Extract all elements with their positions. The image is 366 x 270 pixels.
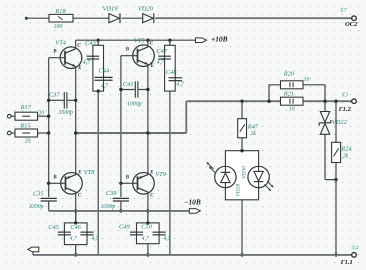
wire bbox=[38, 115, 49, 117]
capacitor C44 bbox=[94, 67, 112, 89]
resistor R21 bbox=[281, 90, 304, 112]
svg-text:E: E bbox=[77, 171, 81, 176]
transistor VT9 bbox=[125, 171, 167, 199]
svg-text:R20: R20 bbox=[283, 70, 295, 77]
node C41 left bbox=[119, 88, 122, 91]
wire emitter column stage2 bbox=[147, 65, 149, 175]
node C50 bus bbox=[146, 253, 149, 256]
capacitor box C45/C46 bbox=[64, 223, 87, 245]
led VD30 bbox=[242, 166, 274, 191]
wire net OC2 to X7 bbox=[155, 17, 351, 19]
svg-text:R47: R47 bbox=[247, 124, 259, 131]
connector pin X4 bbox=[340, 245, 358, 267]
wire VT9 base bbox=[121, 182, 138, 184]
resistor R47 bbox=[238, 101, 259, 138]
svg-text:C49: C49 bbox=[119, 223, 130, 230]
svg-text:VT4: VT4 bbox=[55, 40, 66, 47]
svg-text:C48: C48 bbox=[166, 69, 177, 76]
svg-text:+10В: +10В bbox=[211, 35, 228, 44]
capacitor C41 bbox=[121, 81, 148, 107]
svg-text:4,7: 4,7 bbox=[91, 235, 99, 242]
wire base column stage2 bbox=[120, 56, 122, 184]
node VD22-R24 bbox=[334, 178, 337, 181]
capacitor C48 bbox=[166, 69, 185, 88]
wire VT5 base bbox=[121, 55, 138, 57]
wire emitter column stage1 bbox=[75, 67, 77, 175]
wire R24 node to bus bbox=[335, 180, 337, 255]
svg-text:4,7: 4,7 bbox=[83, 59, 91, 66]
wire box to bus bbox=[241, 200, 243, 255]
svg-text:10: 10 bbox=[289, 106, 295, 112]
wire cap box to bus bbox=[75, 245, 77, 255]
svg-text:C45: C45 bbox=[48, 224, 59, 231]
node C37 right bbox=[74, 99, 77, 102]
node C45 box top bbox=[74, 221, 77, 224]
wire VT8 base bbox=[49, 182, 66, 184]
svg-text:VD28: VD28 bbox=[235, 184, 241, 197]
svg-text:VT8: VT8 bbox=[84, 169, 95, 176]
svg-text:VD20: VD20 bbox=[138, 6, 154, 13]
svg-text:VD19: VD19 bbox=[103, 6, 119, 13]
svg-text:Г1.1: Г1.1 bbox=[340, 259, 353, 266]
node rail-C47 bbox=[168, 39, 171, 42]
svg-text:C44: C44 bbox=[99, 67, 110, 74]
node box top bbox=[240, 149, 243, 152]
capacitor C35 bbox=[28, 183, 57, 211]
svg-text:E: E bbox=[77, 66, 81, 71]
svg-text:2k: 2k bbox=[250, 131, 256, 137]
svg-text:C50: C50 bbox=[141, 223, 152, 230]
node R47 tap bbox=[240, 100, 243, 103]
node C49 box top bbox=[146, 221, 149, 224]
wire feedback vertical bbox=[185, 101, 187, 133]
wire R20 branch right bbox=[303, 85, 326, 101]
wire bottom bus bbox=[33, 254, 351, 256]
svg-text:E: E bbox=[150, 64, 154, 69]
svg-text:X3: X3 bbox=[341, 93, 349, 99]
svg-text:R24: R24 bbox=[340, 145, 352, 152]
wire R47 to diode box bbox=[241, 138, 243, 151]
wire stub bbox=[97, 40, 99, 45]
power arrow bottom left bbox=[28, 247, 39, 255]
wire VT9C to cap box bbox=[147, 211, 149, 223]
capacitor C50 bbox=[141, 223, 171, 242]
suppressor VD22 bbox=[319, 101, 347, 179]
svg-text:C35: C35 bbox=[33, 190, 44, 197]
svg-text:R18: R18 bbox=[54, 8, 66, 15]
capacitor C39 bbox=[100, 183, 129, 211]
svg-text:VD30: VD30 bbox=[242, 166, 248, 179]
capacitor box C49/C50 bbox=[137, 223, 160, 244]
node VD22 tap bbox=[323, 100, 326, 103]
resistor R24 bbox=[332, 101, 353, 162]
wire bbox=[121, 17, 142, 19]
wire column stage1 caps to bus bbox=[97, 91, 99, 255]
svg-text:C39: C39 bbox=[106, 190, 117, 197]
wire VD22 to R24 node bbox=[325, 179, 336, 181]
node VT9C rail bbox=[146, 209, 149, 212]
node R20 tap bbox=[267, 100, 270, 103]
wire R20 branch left bbox=[269, 85, 281, 101]
wire bbox=[38, 132, 49, 134]
node C37 left bbox=[47, 99, 50, 102]
svg-text:X4: X4 bbox=[350, 245, 358, 252]
svg-text:20: 20 bbox=[38, 110, 44, 116]
svg-text:E: E bbox=[149, 171, 153, 176]
node opto bus bbox=[240, 253, 243, 256]
svg-text:4,7: 4,7 bbox=[163, 235, 171, 242]
node VT9 base bbox=[119, 182, 122, 185]
capacitor C43 bbox=[83, 40, 99, 66]
capacitor C49 bbox=[119, 223, 150, 242]
diode VD20 bbox=[138, 6, 154, 24]
wire net X3 right bbox=[303, 100, 352, 102]
svg-text:C37: C37 bbox=[49, 91, 60, 98]
power -10V arrow bbox=[184, 198, 201, 214]
svg-text:−10В: −10В bbox=[184, 198, 201, 207]
svg-text:10: 10 bbox=[304, 77, 310, 83]
svg-text:4,7: 4,7 bbox=[101, 83, 109, 90]
node rail-C43 bbox=[97, 39, 100, 42]
capacitor C45 bbox=[48, 224, 78, 242]
connector pin X3 bbox=[338, 93, 357, 113]
node input endpoint bbox=[25, 17, 28, 20]
node box bottom bbox=[97, 89, 100, 92]
capacitor C46 bbox=[70, 224, 99, 242]
transistor VT8 bbox=[52, 169, 95, 199]
wire VT4 base bbox=[49, 57, 65, 59]
svg-text:C47: C47 bbox=[156, 48, 167, 55]
transistor VT4 bbox=[52, 40, 81, 71]
resistor R15 bbox=[11, 123, 37, 145]
node R24 bus bbox=[334, 253, 337, 256]
wire VT5 collector bbox=[147, 40, 149, 47]
node C46 bus bbox=[74, 253, 77, 256]
node C39 rail bbox=[119, 209, 122, 212]
wire VT8 collector bbox=[75, 192, 77, 223]
svg-text:VT5: VT5 bbox=[134, 37, 145, 44]
node feedback-E1 bbox=[74, 131, 77, 134]
wire VT8C to cap box bbox=[75, 211, 77, 223]
capacitor box C47/C48 bbox=[165, 45, 176, 91]
wire VT9 collector bbox=[147, 192, 149, 223]
wire column stage2 caps to bus bbox=[169, 91, 171, 255]
svg-text:ОС2: ОС2 bbox=[345, 21, 358, 28]
wire VT4 collector bbox=[75, 40, 77, 49]
svg-text:1000p: 1000p bbox=[127, 101, 142, 107]
capacitor C37 bbox=[49, 91, 76, 116]
svg-text:C41: C41 bbox=[123, 81, 134, 88]
svg-text:2k: 2k bbox=[343, 153, 349, 159]
svg-text:X7: X7 bbox=[339, 8, 348, 14]
svg-text:R21: R21 bbox=[283, 90, 294, 97]
svg-text:4,7: 4,7 bbox=[142, 235, 150, 242]
node VT8C rail bbox=[74, 209, 77, 212]
capacitor C47 bbox=[156, 48, 171, 65]
transistor VT5 bbox=[125, 37, 155, 69]
diode VD19 bbox=[103, 6, 120, 24]
svg-text:4,7: 4,7 bbox=[176, 81, 184, 88]
wire base column stage1 bbox=[48, 58, 50, 184]
node VT8 base bbox=[47, 182, 50, 185]
svg-text:3300p: 3300p bbox=[100, 204, 116, 210]
wire R24 bottom bbox=[335, 163, 337, 180]
power +10V arrow bbox=[196, 35, 228, 44]
svg-text:VT9: VT9 bbox=[155, 171, 166, 178]
svg-text:C43: C43 bbox=[85, 40, 96, 47]
connector pin R17 bbox=[8, 114, 12, 118]
connector pin X7 bbox=[339, 8, 358, 28]
svg-text:3300p: 3300p bbox=[57, 110, 73, 116]
node rail-VT5C bbox=[146, 39, 149, 42]
wire feedback horizontal bbox=[76, 132, 187, 134]
connector pin R15 bbox=[8, 131, 12, 135]
wire -10V rail bbox=[49, 210, 190, 212]
node R24 tap bbox=[334, 100, 337, 103]
capacitor box C43/C44 bbox=[93, 45, 104, 91]
node feedback-E2 bbox=[146, 131, 149, 134]
wire stub bbox=[169, 40, 171, 45]
resistor R17 bbox=[11, 104, 44, 120]
svg-text:4,7: 4,7 bbox=[70, 235, 78, 242]
svg-text:20: 20 bbox=[25, 138, 31, 144]
svg-text:C46: C46 bbox=[70, 224, 81, 231]
svg-text:VD22: VD22 bbox=[332, 119, 348, 126]
svg-text:R15: R15 bbox=[19, 123, 30, 130]
diode pair box bbox=[225, 151, 258, 200]
wire bbox=[26, 17, 49, 19]
node R15-base bbox=[47, 131, 50, 134]
svg-text:Г1.2: Г1.2 bbox=[338, 106, 352, 113]
svg-text:4,7: 4,7 bbox=[157, 58, 165, 65]
wire bbox=[73, 17, 109, 19]
svg-text:100: 100 bbox=[54, 24, 63, 30]
svg-text:R17: R17 bbox=[20, 104, 32, 111]
node C41 right bbox=[146, 88, 149, 91]
wire +10V rail bbox=[76, 39, 196, 41]
node R17-base bbox=[47, 115, 50, 118]
wire net X3 left bbox=[186, 100, 280, 102]
svg-text:3300p: 3300p bbox=[28, 204, 44, 210]
resistor R18 bbox=[49, 8, 73, 30]
wire cap box to bus bbox=[147, 244, 149, 255]
led VD28 bbox=[206, 162, 241, 197]
resistor R20 bbox=[281, 70, 310, 88]
